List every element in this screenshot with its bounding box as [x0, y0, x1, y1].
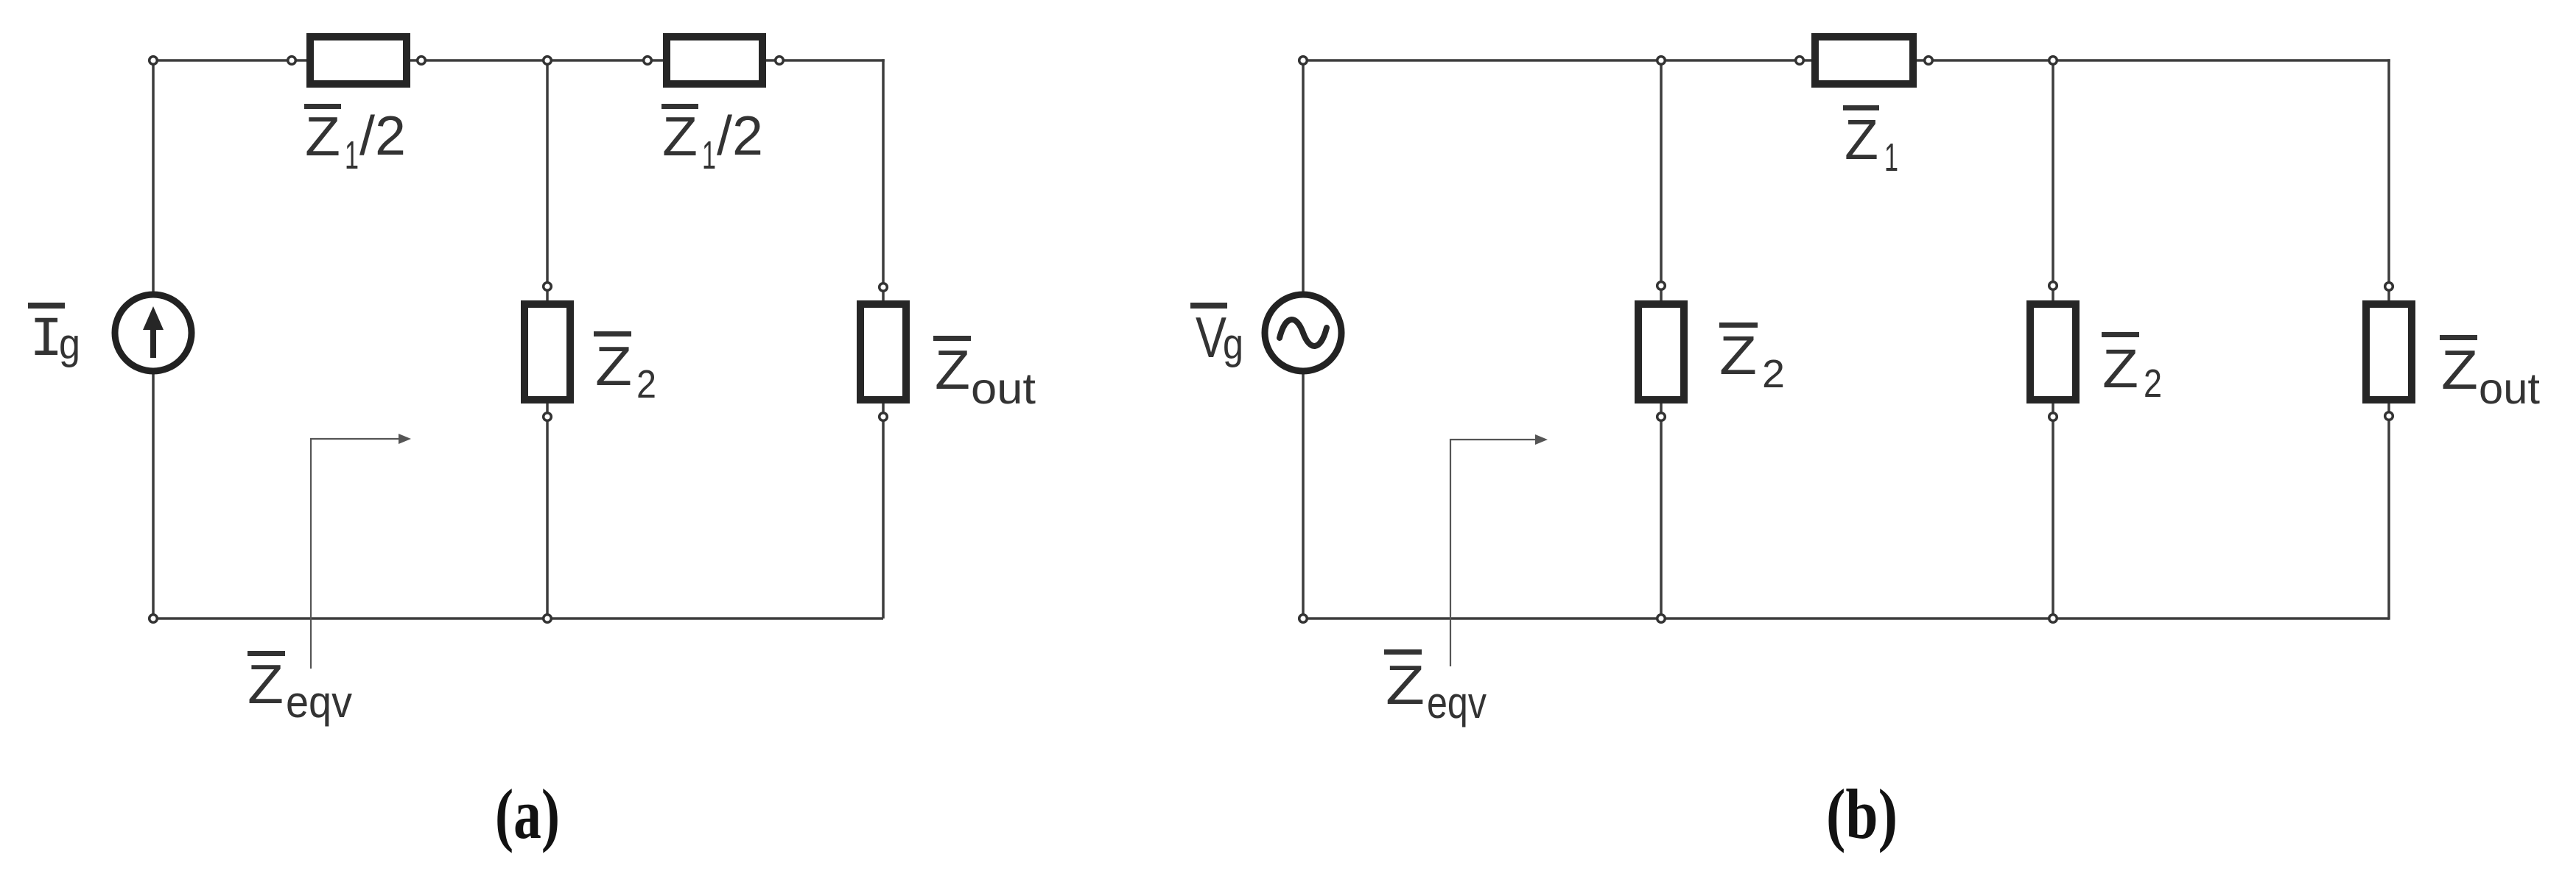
svg-text:2: 2: [2144, 362, 2162, 406]
svg-text:g: g: [59, 320, 80, 368]
value label Z1/2 (right): [661, 104, 763, 177]
node top-left (b): [1299, 57, 1308, 65]
svg-text:Z: Z: [1719, 325, 1757, 386]
resistor Z1/2 (left): [310, 37, 407, 84]
value label Z1/2 (left): [304, 104, 406, 177]
node bottom-left (a): [150, 615, 158, 623]
svg-text:/2: /2: [359, 105, 406, 166]
node junction Z2 bottom (a): [544, 615, 552, 623]
wire bottom (b): [1303, 617, 2389, 620]
node left of Z1 (b): [1796, 57, 1804, 65]
svg-text:1: 1: [345, 133, 359, 177]
node junction second Z2 bottom (b): [2049, 615, 2057, 623]
arrow Zeqv (b): [1450, 434, 1548, 666]
wire Zout branch upper (b): [2387, 59, 2390, 302]
node below Zout (a): [880, 413, 888, 421]
value label Z2 (a): [594, 331, 656, 406]
wire Zout branch upper (a): [882, 59, 885, 302]
node junction first Z2 top (b): [1657, 57, 1666, 65]
node junction first Z2 bottom (b): [1657, 615, 1666, 623]
caption (a): [495, 775, 560, 853]
node below Zout (b): [2385, 412, 2393, 420]
node above Zout (b): [2385, 283, 2393, 291]
wire left lower (b): [1302, 371, 1305, 619]
wire Zout branch lower (b): [2387, 402, 2390, 620]
node junction second Z2 top (b): [2049, 57, 2057, 65]
wire top-right segment (b): [1915, 59, 2390, 62]
label Zeqv (a): [248, 651, 352, 727]
wire Zout branch lower (a): [882, 402, 885, 619]
svg-text:I: I: [29, 309, 63, 372]
svg-text:eqv: eqv: [286, 677, 352, 727]
label Zeqv (b): [1384, 649, 1487, 727]
resistor Z2 (a): [524, 304, 570, 400]
label Vg: [1190, 303, 1243, 370]
svg-text:Z: Z: [1845, 108, 1878, 172]
svg-text:V: V: [1196, 305, 1226, 370]
node right of Z1/2 left (a): [418, 57, 426, 65]
resistor Zout (a): [860, 304, 906, 400]
svg-text:/2: /2: [717, 105, 763, 166]
wire top-right segment (a): [765, 59, 885, 62]
value label Zout (b): [2440, 335, 2540, 413]
svg-text:eqv: eqv: [1427, 678, 1487, 727]
svg-text:Z: Z: [595, 335, 632, 397]
node below Z2 (a): [544, 413, 552, 421]
node left of Z1/2 right (a): [644, 57, 652, 65]
node top-left (a): [150, 57, 158, 65]
wire Z2 second branch upper (b): [2052, 60, 2054, 302]
resistor Z2 second (b): [2030, 304, 2076, 400]
value label Z2 second (b): [2102, 332, 2162, 406]
node below Z2 second (b): [2049, 413, 2057, 421]
node below Z2 first (b): [1657, 413, 1666, 421]
wire left upper (a): [152, 60, 155, 295]
svg-text:Z: Z: [2441, 339, 2478, 401]
svg-text:Z: Z: [2102, 338, 2138, 399]
node above Z2 second (b): [2049, 282, 2057, 290]
svg-text:1: 1: [1884, 135, 1898, 180]
svg-text:Z: Z: [662, 105, 698, 167]
node bottom-left (b): [1299, 615, 1308, 623]
svg-text:2: 2: [636, 362, 656, 406]
wire top-middle segment (a): [409, 59, 664, 62]
wire top-left segment (b): [1303, 59, 1813, 62]
wire Z2 first branch upper (b): [1660, 60, 1663, 302]
svg-text:Z: Z: [305, 105, 340, 167]
svg-text:Z: Z: [248, 653, 284, 715]
node above Z2 first (b): [1657, 282, 1666, 290]
current source Ig: [115, 295, 192, 371]
svg-text:(a): (a): [495, 775, 560, 853]
node right of Z1/2 right (a): [776, 57, 784, 65]
value label Z1 (b): [1843, 105, 1898, 180]
wire Z2 branch lower (a): [546, 402, 549, 619]
wire Z2 branch upper (a): [546, 60, 549, 302]
svg-text:Z: Z: [935, 339, 970, 401]
arrow Zeqv (a): [311, 434, 411, 669]
node right of Z1 (b): [1925, 57, 1933, 65]
svg-text:out: out: [2479, 364, 2540, 413]
node above Zout (a): [880, 283, 888, 292]
wire left upper (b): [1302, 60, 1305, 295]
svg-text:(b): (b): [1826, 775, 1898, 853]
resistor Z1 (b): [1815, 37, 1913, 84]
node junction Z2 top (a): [544, 57, 552, 65]
wire bottom (a): [153, 617, 883, 620]
wire Z2 second branch lower (b): [2052, 402, 2054, 619]
resistor Z1/2 (right): [667, 37, 762, 84]
resistor Zout (b): [2366, 304, 2412, 400]
svg-text:Z: Z: [1386, 654, 1425, 716]
svg-text:2: 2: [1762, 352, 1785, 396]
wire Z2 first branch lower (b): [1660, 402, 1663, 619]
value label Zout (a): [933, 336, 1036, 413]
label Ig: [28, 303, 80, 372]
svg-text:g: g: [1223, 320, 1243, 368]
svg-text:out: out: [971, 364, 1036, 413]
wire left lower (a): [152, 371, 155, 619]
svg-text:1: 1: [702, 133, 716, 177]
node above Z2 (a): [544, 283, 552, 291]
node left of Z1/2 left (a): [288, 57, 296, 65]
value label Z2 first (b): [1719, 323, 1785, 396]
caption (b): [1826, 775, 1898, 853]
wire top-left segment (a): [153, 59, 308, 62]
resistor Z2 first (b): [1638, 304, 1684, 400]
voltage source Vg: [1265, 295, 1341, 371]
